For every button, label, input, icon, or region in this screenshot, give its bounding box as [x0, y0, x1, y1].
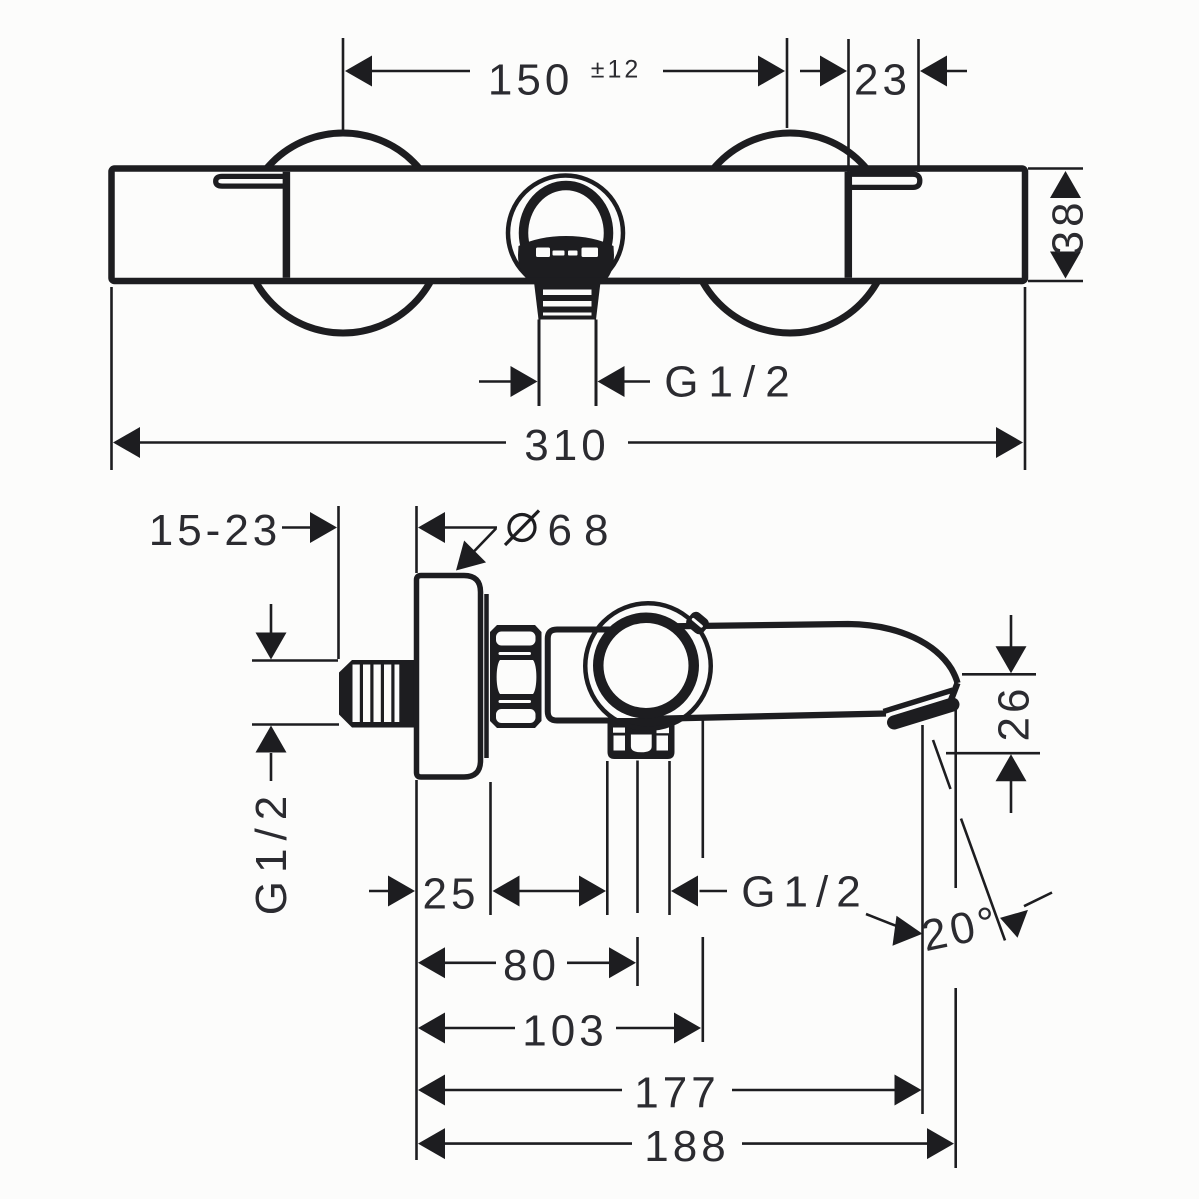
dim 26 stems: [1010, 615, 1013, 813]
38 up / down: [1050, 171, 1081, 198]
ext lines 38: [1028, 169, 1083, 282]
bowl slots: [536, 248, 598, 258]
svg-text:25: 25: [423, 869, 480, 918]
svg-text:177: 177: [634, 1068, 719, 1117]
nut separator 1: [499, 652, 532, 655]
310: [113, 427, 140, 458]
svg-text:38: 38: [1044, 198, 1093, 255]
svg-text:26: 26: [990, 685, 1039, 742]
15-23 stem + ext: [282, 506, 339, 659]
15-23 right arrow: [310, 512, 337, 543]
dia68 leader arrowhead: [445, 540, 486, 581]
center outlet outer circle: [508, 176, 623, 291]
outlet sleeve (threaded): [534, 282, 601, 320]
outlet pipe: [539, 320, 596, 407]
nut middle window: [497, 660, 537, 694]
G1/2 bottom stem + leader: [700, 891, 920, 933]
valve body outline: [548, 630, 660, 721]
103: [418, 1013, 445, 1044]
dia68 stem + leader: [445, 528, 497, 568]
20deg leader arrowhead: [1000, 910, 1034, 940]
20deg leader tail: [1024, 893, 1052, 907]
dim 177 stems: [445, 1089, 895, 1092]
G1/2 bottom arrows: [671, 876, 698, 907]
80: [418, 947, 445, 978]
ext lines 23: [849, 39, 919, 172]
knob handle disc: [598, 618, 694, 714]
svg-text:±12: ±12: [591, 56, 642, 84]
aerator band: [894, 705, 953, 723]
right escutcheon circle: [690, 133, 890, 333]
sleeve stripes: [543, 290, 592, 316]
inlet thread pipe: [339, 660, 417, 728]
nut separator 2: [499, 700, 532, 703]
20deg angle line: [933, 740, 1005, 940]
dim 103 stems: [445, 1027, 675, 1030]
dim 25 stems: [369, 890, 580, 893]
svg-text:68: 68: [548, 506, 621, 555]
spout top edge: [655, 624, 958, 683]
svg-text:15-23: 15-23: [149, 506, 282, 555]
svg-text:G1/2: G1/2: [741, 867, 868, 916]
svg-text:G1/2: G1/2: [247, 788, 296, 915]
ext x670: [668, 761, 671, 915]
ext x490.5: [489, 782, 492, 915]
ext x922.5: [921, 725, 924, 1114]
spout bottom edge: [645, 714, 886, 720]
left escutcheon circle: [243, 133, 443, 333]
arrowheads: [113, 56, 1081, 1160]
center outlet inner ring: [524, 186, 609, 281]
25 arrows: [388, 876, 415, 907]
valve body fill: [548, 629, 660, 722]
nut top window: [496, 632, 536, 646]
svg-text:150: 150: [488, 55, 573, 104]
G1/2 pipe arrow stems: [270, 604, 273, 781]
svg-text:80: 80: [503, 941, 560, 990]
ext x637.5: [636, 761, 639, 987]
union nut block: [490, 625, 542, 728]
outlet bowl: [518, 236, 614, 290]
26: [996, 646, 1027, 673]
left notch: [216, 176, 283, 186]
23 outside: [820, 56, 847, 87]
spout end face: [951, 683, 958, 700]
nut bottom window: [496, 709, 536, 723]
ext x416.5 down: [415, 780, 418, 1160]
svg-text:G1/2: G1/2: [664, 357, 799, 406]
dim 23 stems: [800, 70, 967, 73]
G1/2 pipe ticks: [252, 661, 339, 725]
left piece divider: [283, 172, 291, 278]
flange edge step: [484, 594, 489, 758]
temperature tab: [684, 609, 712, 636]
ext x702.8: [701, 719, 704, 1042]
188: [418, 1128, 445, 1159]
right piece divider: [845, 172, 853, 278]
wall bar body: [112, 169, 1026, 282]
G1/2 top: [511, 366, 538, 397]
knob grip ring: [585, 603, 711, 729]
flange ext up: [415, 506, 418, 573]
wall flange: [417, 576, 481, 778]
svg-text:103: 103: [522, 1006, 607, 1055]
ext x608: [606, 761, 609, 915]
spout fill: [650, 624, 958, 718]
G1/2 pipe arrows: [256, 633, 287, 660]
ext x955.7: [954, 706, 957, 1168]
ext lines 310: [112, 287, 1026, 470]
dia68 left arrow at flange line: [418, 512, 445, 543]
svg-text:310: 310: [524, 421, 609, 470]
dim 150 stems: [372, 70, 759, 73]
G1/2 top stems: [479, 380, 650, 383]
right notch: [850, 174, 920, 187]
177: [418, 1075, 445, 1106]
dim 188 stems: [445, 1142, 927, 1145]
thread stripes: [353, 665, 400, 723]
svg-text:23: 23: [854, 55, 911, 104]
shower outlet connector: [608, 718, 675, 759]
bar bottom edge redraw: [460, 278, 680, 285]
dia symbol: [509, 515, 535, 541]
dim 26 ticks: [946, 674, 1040, 753]
aerator rim line: [884, 690, 954, 712]
dim 80 stems: [445, 961, 610, 964]
150 left / right: [345, 56, 372, 87]
ext lines 150: [343, 38, 787, 130]
svg-text:188: 188: [644, 1122, 729, 1171]
dim 310 stems: [140, 441, 996, 444]
